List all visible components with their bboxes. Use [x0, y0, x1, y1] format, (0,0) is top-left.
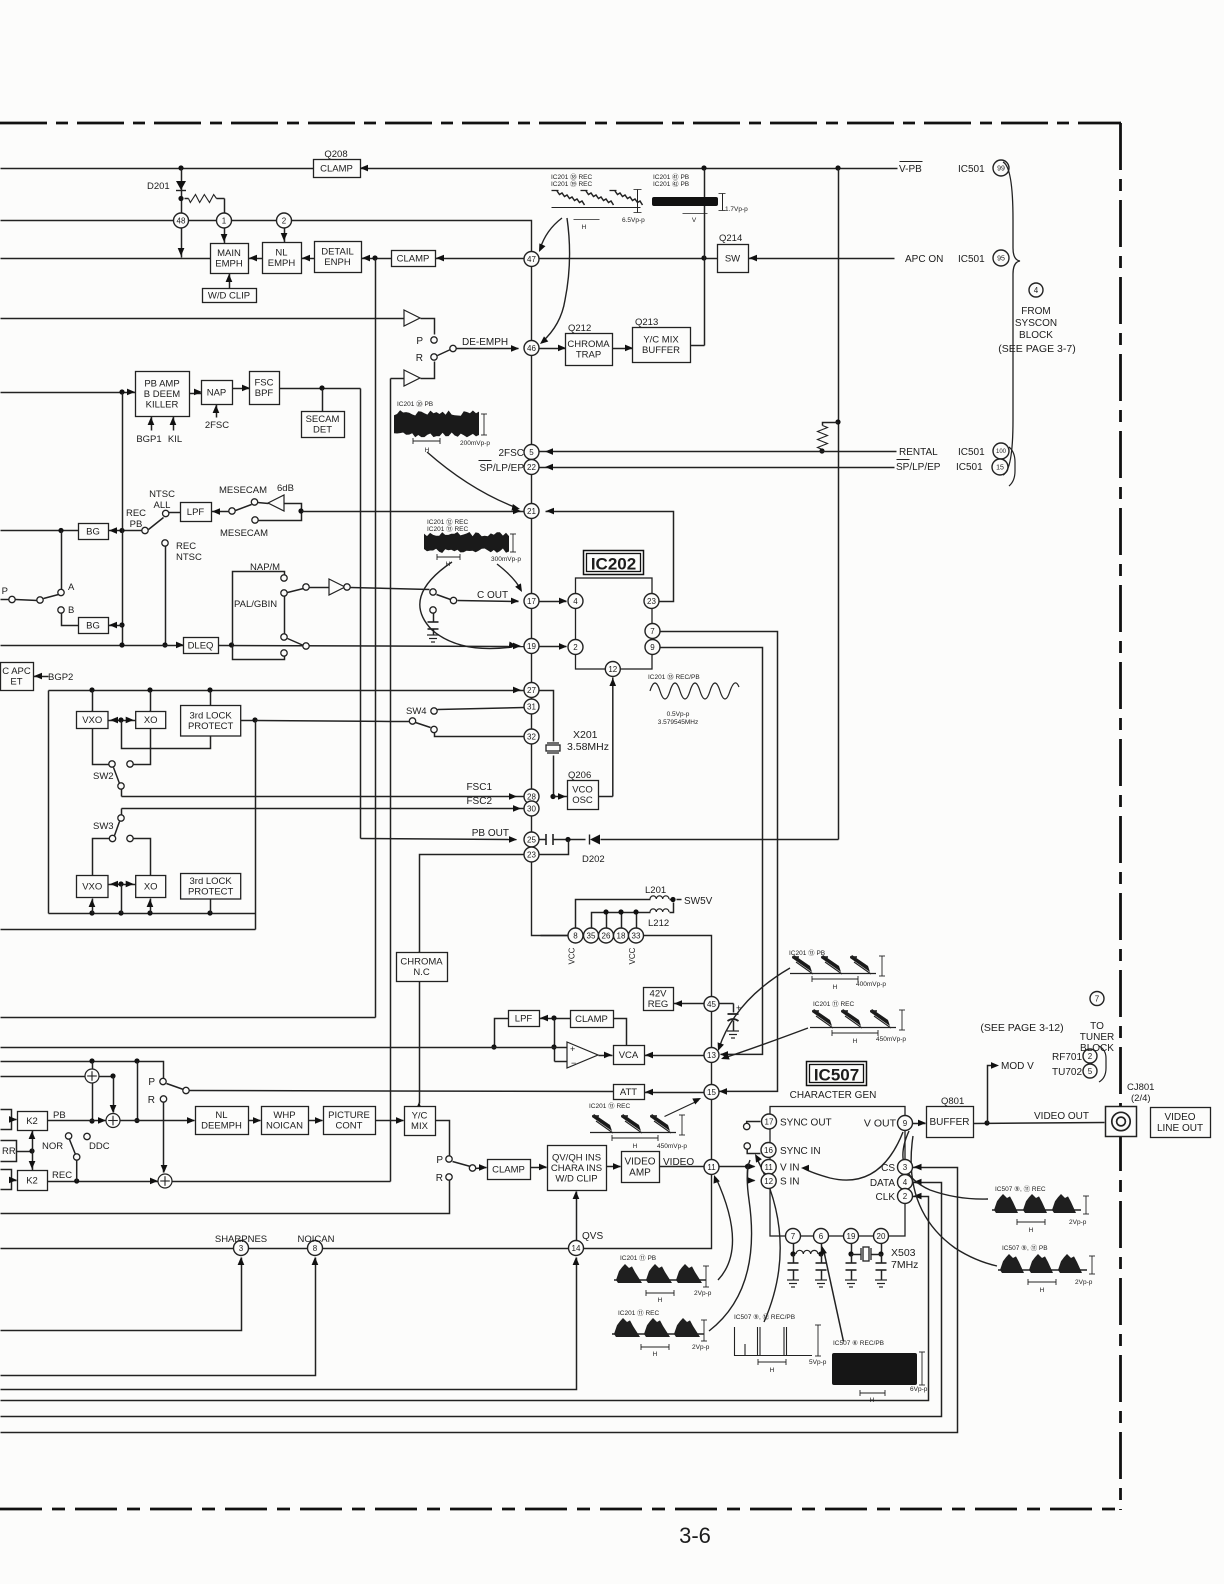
wire pin47 to CLAMP — [436, 258, 525, 260]
wire rail y690 to pin 27 — [49, 690, 525, 692]
wire bus388 to R triangle — [391, 378, 405, 380]
wire KILLER to NAP — [190, 393, 202, 395]
wire pin20 down — [881, 1244, 883, 1255]
common switch2 — [469, 1165, 475, 1171]
circled 2 RF701 — [1083, 1049, 1097, 1063]
switch blade PR2 — [453, 1162, 471, 1167]
IC201 pin 17 — [524, 594, 539, 609]
svg-text:BGP1: BGP1 — [136, 434, 161, 445]
wire BG upper to left edge — [1, 530, 79, 532]
wire SW4 common to bus388 — [391, 721, 410, 723]
ground under pin19 — [845, 1280, 857, 1287]
arrow into killer — [127, 389, 135, 396]
junction SW5V node — [670, 897, 675, 902]
block CLAMP 2 — [392, 251, 436, 267]
capacitor under pin20 — [876, 1263, 887, 1270]
wire pin46 to CHROMA TRAP — [540, 348, 566, 350]
wire pin13 to VCA — [645, 1055, 705, 1057]
svg-text:CHROMA: CHROMA — [400, 957, 443, 968]
svg-text:0.5Vp-p: 0.5Vp-p — [667, 711, 690, 718]
svg-text:FSC1: FSC1 — [466, 782, 492, 793]
svg-text:CLAMP: CLAMP — [575, 1014, 608, 1025]
svg-text:H: H — [633, 1143, 638, 1150]
wire RENTAL to pin5 — [540, 451, 897, 453]
svg-text:IC201 ⑪ PB: IC201 ⑪ PB — [620, 1254, 656, 1262]
svg-text:RENTAL: RENTAL — [899, 447, 938, 458]
svg-text:MIX: MIX — [411, 1121, 429, 1132]
wire pin45 to 42V REG — [674, 1003, 705, 1005]
svg-text:MESECAM: MESECAM — [220, 528, 268, 539]
svg-text:8: 8 — [573, 931, 578, 940]
svg-text:BPF: BPF — [255, 388, 274, 399]
waveform sawtooth 450mV upper — [812, 1009, 832, 1026]
svg-text:32: 32 — [527, 732, 536, 741]
common SW3 — [118, 815, 124, 821]
wire adder1 left input — [1, 1076, 86, 1078]
common P switch — [37, 597, 43, 603]
svg-text:2: 2 — [903, 1192, 908, 1201]
wire adder3 to bus388 — [173, 1181, 391, 1183]
svg-text:5Vp-p: 5Vp-p — [809, 1359, 827, 1366]
svg-text:28: 28 — [527, 792, 536, 801]
block 3rd LOCK PROTECT lower — [181, 874, 241, 900]
svg-text:PICTURE: PICTURE — [328, 1110, 370, 1121]
svg-text:H: H — [870, 1397, 875, 1404]
callout sawtooth to pin47 — [540, 218, 562, 249]
wire mesecam common to LPF — [212, 511, 230, 513]
block CLAMP video — [488, 1160, 531, 1180]
block CLAMP feedback — [571, 1011, 614, 1028]
svg-text:H: H — [582, 224, 587, 231]
bracket tuner — [1099, 1046, 1106, 1082]
circled 4 from syscon — [1029, 283, 1043, 297]
buffer amp P path — [404, 310, 420, 326]
svg-text:H: H — [853, 1038, 858, 1045]
svg-text:SW3: SW3 — [93, 821, 114, 832]
IC201 pin 8 noican — [308, 1241, 323, 1256]
block SECAM DET — [302, 412, 345, 438]
IC201 pin 32 — [524, 729, 539, 744]
wire FSC1 into VCO — [554, 796, 568, 798]
circled 7 tuner — [1090, 992, 1104, 1006]
svg-text:IC201 ㊷ PB: IC201 ㊷ PB — [653, 180, 689, 188]
svg-text:VIDEO: VIDEO — [663, 1157, 694, 1168]
junction x255 top — [252, 717, 257, 722]
svg-text:S IN: S IN — [780, 1177, 799, 1188]
svg-text:NL: NL — [275, 248, 287, 259]
IC202 pin 2 — [568, 640, 583, 655]
svg-text:SP/LP/EP: SP/LP/EP — [480, 463, 525, 474]
svg-text:IC501: IC501 — [958, 164, 985, 175]
junction A contact vertical — [58, 528, 63, 533]
svg-text:L201: L201 — [645, 885, 666, 896]
svg-text:LPF: LPF — [187, 507, 205, 518]
diode D202 — [590, 835, 600, 845]
svg-text:SW4: SW4 — [406, 706, 427, 717]
svg-text:D201: D201 — [147, 181, 170, 192]
wire WD CLIP to MAIN EMPH — [229, 274, 231, 289]
svg-text:QVS: QVS — [582, 1231, 603, 1242]
circled 5 TU702 — [1083, 1064, 1097, 1078]
svg-text:DET: DET — [313, 425, 332, 436]
svg-text:17: 17 — [765, 1117, 774, 1126]
svg-text:P: P — [2, 586, 8, 597]
wire common to BG upper — [109, 530, 143, 532]
switch blade C OUT — [437, 595, 451, 600]
svg-text:SYNC IN: SYNC IN — [780, 1146, 821, 1157]
wire contact to 6dB tip — [258, 503, 269, 504]
wire bus x360 — [360, 389, 362, 839]
contact SW2 left — [109, 761, 115, 767]
ground under pin20 — [875, 1280, 887, 1287]
svg-text:(SEE PAGE 3-7): (SEE PAGE 3-7) — [998, 343, 1075, 355]
wire QV box to VIDEO AMP — [607, 1166, 621, 1168]
IC507 pin 12 — [761, 1174, 776, 1189]
IC507 label box — [807, 1062, 867, 1086]
wire DLEQ to pin 19 — [219, 646, 525, 647]
wire bus x375 — [375, 259, 377, 1018]
IC201 pin 22 — [524, 460, 539, 475]
svg-text:11: 11 — [707, 1163, 716, 1172]
junction bus122 top — [119, 389, 124, 394]
svg-text:3.58MHz: 3.58MHz — [567, 741, 609, 753]
waveform blob 300mV — [424, 532, 509, 553]
svg-text:VXO: VXO — [82, 881, 102, 892]
block LPF mesecam — [181, 503, 212, 522]
diode D201 — [176, 181, 186, 190]
IC201 pin 23 — [524, 847, 539, 862]
svg-text:VXO: VXO — [82, 715, 102, 726]
block BUFFER Q801 — [927, 1107, 974, 1138]
svg-text:CLK: CLK — [876, 1192, 896, 1203]
svg-text:IC507 ⑨, ⑪ REC: IC507 ⑨, ⑪ REC — [995, 1185, 1046, 1193]
svg-text:IC501: IC501 — [958, 447, 985, 458]
svg-text:9: 9 — [903, 1119, 908, 1128]
svg-text:ET: ET — [10, 677, 22, 688]
stub box RR carrier — [1, 1141, 17, 1162]
P contact DE-EMPH switch — [431, 337, 437, 343]
svg-text:Y/C: Y/C — [412, 1111, 428, 1122]
junction D201 top — [178, 165, 183, 170]
svg-text:26: 26 — [602, 931, 611, 940]
IC201 pin 26 — [599, 928, 614, 943]
wire feedback to 3rd lock bottom upper — [122, 721, 211, 749]
contact R path1 — [160, 1096, 166, 1102]
svg-text:2FSC: 2FSC — [498, 448, 524, 459]
svg-text:ALL: ALL — [154, 500, 171, 511]
block WHP NOICAN — [262, 1107, 309, 1135]
svg-text:CLAMP: CLAMP — [492, 1164, 525, 1175]
wire pin17 to IC202 pin4 — [540, 601, 567, 603]
svg-text:2Vp-p: 2Vp-p — [1069, 1219, 1087, 1226]
svg-text:DDC: DDC — [89, 1141, 110, 1152]
svg-text:2: 2 — [573, 643, 578, 652]
svg-text:CLAMP: CLAMP — [320, 163, 353, 174]
IC201 pin 45 — [704, 997, 719, 1012]
op-amp — [567, 1042, 598, 1068]
svg-text:8: 8 — [313, 1244, 318, 1253]
wire pin9 to BUFFER — [913, 1123, 926, 1125]
svg-text:5: 5 — [529, 448, 534, 457]
svg-text:17: 17 — [527, 597, 536, 606]
wire REC NTSC contact down to DLEQ line — [165, 547, 167, 646]
svg-text:6Vp-p: 6Vp-p — [910, 1386, 928, 1393]
IC507 pin 3 — [898, 1160, 913, 1175]
svg-text:22: 22 — [527, 463, 536, 472]
svg-text:31: 31 — [527, 702, 536, 711]
svg-text:H: H — [1029, 1227, 1034, 1234]
wire P input y318 — [1, 318, 405, 320]
svg-text:SP/LP/EP: SP/LP/EP — [896, 462, 941, 473]
crystal X201 — [546, 743, 560, 753]
svg-text:R: R — [416, 353, 423, 364]
svg-text:48: 48 — [177, 216, 186, 225]
wire L212 rail to pin35 — [592, 913, 651, 929]
svg-text:LINE OUT: LINE OUT — [1157, 1123, 1203, 1134]
junction BG lower — [119, 622, 124, 627]
IC507 pin 6 — [814, 1229, 829, 1244]
wire jumper x137 — [137, 1062, 139, 1121]
wire SW4 lower to pin32 — [435, 733, 525, 737]
svg-text:20: 20 — [877, 1232, 886, 1241]
svg-text:12: 12 — [764, 1177, 773, 1186]
wire NOICAN feed y1375 — [1, 1258, 316, 1376]
IC201 pin 30 — [524, 801, 539, 816]
svg-text:33: 33 — [632, 931, 641, 940]
common SW4 — [409, 718, 415, 724]
svg-text:IC507: IC507 — [814, 1066, 859, 1085]
wire SHARPNES feed y1330 — [1, 1258, 242, 1331]
wire VIDEO AMP to V IN — [660, 1166, 748, 1168]
common contact DE-EMPH switch — [450, 345, 456, 351]
svg-text:11: 11 — [765, 1163, 774, 1172]
svg-text:12: 12 — [608, 665, 617, 674]
block CHROMA TRAP Q212 — [566, 334, 613, 366]
svg-text:TU702: TU702 — [1052, 1067, 1082, 1078]
svg-text:PROTECT: PROTECT — [188, 886, 234, 897]
svg-text:CHROMA: CHROMA — [567, 339, 610, 350]
svg-text:3: 3 — [903, 1163, 908, 1172]
IC201 pin 14 — [569, 1241, 584, 1256]
wire y929 to left edge — [1, 929, 256, 931]
wire VXO-XO lower — [109, 884, 136, 886]
IC201 pin 35 — [584, 928, 599, 943]
svg-text:Q801: Q801 — [941, 1096, 964, 1107]
svg-text:PAL/GBIN: PAL/GBIN — [234, 599, 277, 610]
callout block to pin6 — [824, 1250, 844, 1342]
block SW Q214 — [718, 245, 749, 273]
contact sync out — [744, 1123, 750, 1129]
svg-text:VIDEO OUT: VIDEO OUT — [1034, 1111, 1089, 1122]
svg-text:MAIN: MAIN — [217, 248, 241, 259]
wire VCO to IC202 pin12 — [612, 678, 614, 797]
svg-text:7: 7 — [1095, 994, 1100, 1003]
svg-text:BLOCK: BLOCK — [1080, 1043, 1114, 1054]
svg-text:2Vp-p: 2Vp-p — [692, 1344, 710, 1351]
junction NOR common — [74, 1178, 79, 1183]
contact mesecam top — [251, 499, 257, 505]
svg-text:19: 19 — [847, 1232, 856, 1241]
buffer amp C OUT path — [329, 579, 345, 595]
block VCA — [614, 1046, 645, 1065]
wire A contact up — [61, 531, 63, 590]
junction vertical 704 top — [701, 165, 706, 170]
svg-text:W/D CLIP: W/D CLIP — [208, 290, 250, 301]
junction pin23 tie — [565, 837, 570, 842]
svg-text:4: 4 — [573, 597, 578, 606]
wire bus x388 — [390, 379, 392, 1182]
wire rail to 3rd lock lower bottom — [210, 899, 212, 914]
svg-text:IC201 ⑬ REC: IC201 ⑬ REC — [589, 1102, 630, 1110]
contact REC NTSC — [162, 540, 168, 546]
svg-text:SYNC OUT: SYNC OUT — [780, 1118, 832, 1129]
common pal upper — [303, 584, 309, 590]
wire pin23 to junction — [540, 840, 569, 855]
wire buffer output to vertical 704 — [691, 345, 705, 347]
block K2 upper — [18, 1112, 48, 1131]
IC201 pin 21 — [524, 504, 539, 519]
svg-text:WHP: WHP — [273, 1110, 295, 1121]
callout curve to IC507 PB waveform — [911, 1136, 997, 1266]
junction bus122 bottom — [119, 642, 124, 647]
svg-text:NOR: NOR — [42, 1141, 63, 1152]
wire CLK routing — [1, 1197, 929, 1401]
svg-text:CHARA INS: CHARA INS — [551, 1163, 602, 1174]
wire pins row left ext — [541, 935, 569, 937]
wire CLAMP to DETAIL ENPH — [362, 258, 392, 260]
contact SW4 upper — [431, 708, 437, 714]
contact NAP/M — [281, 575, 287, 581]
svg-text:6: 6 — [819, 1232, 824, 1241]
svg-text:BG: BG — [86, 526, 100, 537]
svg-text:VCO: VCO — [572, 785, 593, 796]
contact SW4 lower — [431, 726, 437, 732]
wire amp to cout switch — [351, 588, 430, 590]
wire NAP/M bracket — [233, 572, 285, 660]
wire pin7 down — [793, 1244, 795, 1255]
buffer amp R path — [404, 370, 420, 386]
junction 704/258 — [701, 255, 706, 260]
IC507 pin 16 — [761, 1143, 776, 1158]
svg-text:TRAP: TRAP — [576, 350, 601, 361]
IC201 pin 19 — [524, 639, 539, 654]
loopback V OUT to V IN — [804, 1132, 903, 1180]
svg-text:P: P — [416, 336, 423, 347]
wire bus x122 — [122, 393, 124, 646]
svg-text:KIL: KIL — [168, 434, 182, 445]
wire BGP2 — [34, 676, 49, 678]
junction bus122 BG — [119, 528, 124, 533]
svg-text:Y/C MIX: Y/C MIX — [643, 335, 679, 346]
page bottom dashed border — [0, 1508, 1122, 1511]
svg-text:(2/4): (2/4) — [1131, 1093, 1151, 1104]
waveform mounds IC201 REC — [612, 1333, 704, 1335]
common contact rec pb — [142, 527, 148, 533]
wire jumper x554 — [554, 1019, 556, 1062]
wire triangle to R contact — [421, 362, 435, 379]
svg-text:Q214: Q214 — [719, 233, 742, 244]
svg-text:200mVp-p: 200mVp-p — [460, 440, 490, 447]
svg-text:FSC2: FSC2 — [466, 796, 492, 807]
svg-text:IC201 ⑪ REC: IC201 ⑪ REC — [618, 1309, 659, 1317]
IC507 pin 20 — [874, 1229, 889, 1244]
svg-text:1: 1 — [222, 216, 227, 225]
block PICTURE CONT — [324, 1107, 376, 1135]
IC202 pin 12 — [605, 662, 620, 677]
svg-text:Q206: Q206 — [568, 770, 591, 781]
svg-text:IC201 ㊳ REC: IC201 ㊳ REC — [551, 173, 592, 181]
switch blade P-A — [44, 595, 59, 599]
IC201 pin 1 — [217, 213, 232, 228]
wire 6dB input loop — [259, 504, 302, 521]
block 42V REG — [644, 988, 674, 1011]
svg-text:450mVp-p: 450mVp-p — [876, 1036, 906, 1043]
svg-text:H: H — [1040, 1287, 1045, 1294]
wire vertical x255 — [255, 721, 257, 930]
wire Q214 SW to pin47 line — [540, 258, 718, 260]
svg-text:OSC: OSC — [572, 795, 593, 806]
svg-text:NL: NL — [215, 1110, 227, 1121]
wire pin25 to cap — [540, 839, 547, 841]
wire vertical x838 V-PB to PBOUT — [838, 169, 840, 840]
svg-text:REG: REG — [648, 999, 669, 1010]
svg-text:X201: X201 — [573, 729, 598, 741]
svg-text:NTSC: NTSC — [149, 489, 175, 500]
svg-text:15: 15 — [996, 465, 1004, 472]
contact at amp tip — [344, 584, 350, 590]
IC201 pin 13 — [704, 1048, 719, 1063]
block LPF feedback — [509, 1011, 540, 1027]
wire QVS to QV/QH box — [576, 1192, 578, 1241]
svg-text:14: 14 — [572, 1244, 581, 1253]
switch blade pal lower — [288, 639, 304, 646]
block VCO OSC Q206 — [568, 781, 599, 810]
switch blade pal upper — [288, 589, 304, 593]
svg-text:L212: L212 — [648, 918, 669, 929]
R contact DE-EMPH switch — [431, 354, 437, 360]
svg-text:V IN: V IN — [780, 1163, 799, 1174]
switch blade NOR — [70, 1140, 76, 1155]
svg-text:16: 16 — [764, 1146, 773, 1155]
IC201 pin 2 — [277, 213, 292, 228]
wire CLAMP to LPF — [540, 1018, 571, 1020]
switch blade SW3 — [115, 822, 120, 836]
wire C OUT to pin17 — [458, 601, 519, 602]
wire adder1 to adder2 — [113, 1077, 115, 1113]
svg-text:(SEE PAGE 3-12): (SEE PAGE 3-12) — [980, 1022, 1063, 1034]
wire input to PB AMP y392 — [1, 392, 136, 394]
svg-text:V-PB: V-PB — [899, 164, 922, 175]
wire SW3 to XO lower top — [134, 839, 151, 876]
block ATT — [614, 1085, 645, 1100]
callout IC201 PB to pin11 — [716, 1178, 733, 1280]
svg-text:NOICAN: NOICAN — [298, 1234, 335, 1245]
svg-text:IC201 ⑬ REC: IC201 ⑬ REC — [427, 525, 468, 533]
page top dashed border — [0, 122, 1121, 125]
contact mesecam bottom — [252, 517, 258, 523]
adder 3 — [158, 1174, 172, 1188]
wire to cap — [433, 614, 435, 623]
svg-text:SW2: SW2 — [93, 771, 114, 782]
wire pin2 to NL EMPH — [284, 229, 286, 243]
IC201 pin 46 — [524, 341, 539, 356]
capacitor under pin7 — [788, 1263, 799, 1270]
svg-text:REC: REC — [52, 1170, 72, 1181]
wire IC202 pin9 to IC201 pin13 — [661, 648, 763, 1055]
svg-text:IC201 ㊶ PB: IC201 ㊶ PB — [653, 173, 689, 181]
wire K2 lower to adder3 — [48, 1181, 158, 1183]
contact SW2 right — [127, 761, 133, 767]
